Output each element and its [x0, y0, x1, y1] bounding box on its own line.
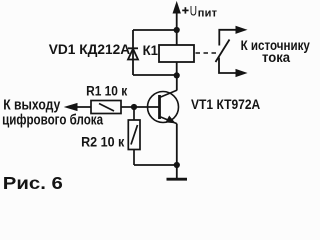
svg-text:R2 10 к: R2 10 к	[81, 134, 125, 150]
wire: diode branch vertical	[132, 30, 134, 75]
diode VD1	[128, 48, 138, 59]
wire: dashed mechanical link to contact	[196, 52, 217, 54]
svg-text:тока: тока	[262, 50, 291, 65]
wire: emitter vertical	[176, 124, 178, 165]
wire: collector vertical	[176, 75, 178, 90]
transistor VT1	[148, 90, 179, 123]
svg-text:К1: К1	[143, 43, 159, 58]
svg-text:Рис. 6: Рис. 6	[3, 174, 63, 194]
wire: bottom horizontal	[134, 164, 177, 166]
wire: top horizontal to diode branch	[133, 29, 177, 31]
wire: relay bottom lead	[176, 62, 178, 75]
relay coil K1	[159, 45, 194, 62]
wire: relay top lead	[176, 30, 178, 45]
resistor R1	[91, 101, 134, 114]
svg-text:U: U	[190, 3, 197, 19]
wire: base wire	[134, 106, 160, 108]
switch: relay contact K1.1	[216, 26, 247, 76]
wire: diode branch bottom horizontal	[133, 74, 177, 76]
label +Uпит	[182, 7, 188, 13]
node: +Upit supply arrow	[173, 3, 180, 31]
svg-text:R1 10 к: R1 10 к	[86, 83, 128, 99]
svg-text:пит: пит	[198, 7, 218, 19]
resistor R2	[128, 107, 140, 165]
ground	[167, 165, 188, 179]
node: ground junction dot	[174, 162, 180, 168]
svg-text:VT1 КТ972А: VT1 КТ972А	[191, 96, 261, 112]
node: collector junction dot	[174, 72, 180, 78]
node: base junction dot	[131, 104, 137, 110]
arrow: to digital block output	[66, 104, 92, 111]
svg-text:VD1 КД212А: VD1 КД212А	[49, 41, 130, 57]
svg-text:цифрового блока: цифрового блока	[2, 111, 103, 128]
node: top junction dot	[174, 27, 180, 33]
